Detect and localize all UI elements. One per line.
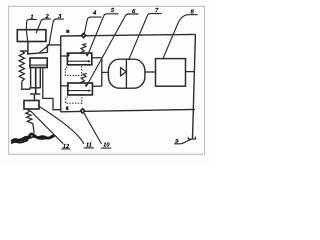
svg-text:5: 5 xyxy=(111,7,115,14)
pipe capsule to box8 xyxy=(145,71,156,73)
right connector vertical xyxy=(101,58,103,86)
piston line xyxy=(30,64,47,66)
port letter a xyxy=(66,30,69,33)
suspension spring K1 xyxy=(19,51,24,89)
piston rod xyxy=(35,68,37,95)
port letter c xyxy=(67,83,70,87)
pump/accumulator capsule U7 xyxy=(108,59,144,88)
valve V2 pilot line (dashed) xyxy=(66,95,82,103)
valve V2 body xyxy=(68,83,93,95)
svg-text:4: 4 xyxy=(92,10,97,17)
sprung mass box M1 xyxy=(17,30,46,42)
capsule divider xyxy=(125,59,127,88)
spring tie bar xyxy=(21,88,31,90)
left vertical bus xyxy=(60,36,62,112)
top wire xyxy=(61,34,196,36)
valve V2 left port xyxy=(61,85,68,87)
valve V2 right port xyxy=(92,85,101,87)
pipe box8 to right bus xyxy=(186,71,195,73)
label 4 xyxy=(84,10,101,35)
border frame xyxy=(9,6,205,154)
spring hanger bar xyxy=(20,50,28,52)
label 3 xyxy=(39,13,64,53)
label 11 xyxy=(38,106,94,149)
hydraulic cylinder upper chamber xyxy=(30,58,47,68)
reservoir box U8 xyxy=(156,59,186,87)
cylinder lower port pipe to return bus xyxy=(43,68,61,110)
label 10 xyxy=(84,113,111,149)
rod stem from mass to cylinder xyxy=(27,42,29,54)
cylinder lower walls xyxy=(31,68,41,88)
check valve triangle xyxy=(121,68,127,76)
valve V1 pilot line (dashed) xyxy=(65,65,81,76)
valve V1 body xyxy=(67,53,91,65)
terminal foot xyxy=(188,137,195,140)
valve V1 spring xyxy=(80,44,87,53)
valve V2 divider/arrow xyxy=(68,90,90,92)
label 2 xyxy=(36,13,51,33)
port letter d xyxy=(66,106,69,110)
label 1 xyxy=(26,14,37,42)
bottom bus xyxy=(61,109,196,111)
label 5 xyxy=(86,7,119,56)
valve V2 spring xyxy=(80,74,87,83)
right vertical bus xyxy=(193,34,196,138)
valve V1 left port xyxy=(61,55,67,57)
road surface squiggle xyxy=(12,134,55,142)
valve V1 divider/arrow xyxy=(68,60,90,62)
label 6 xyxy=(85,8,139,87)
node diamond bottom xyxy=(80,108,85,113)
port letter b xyxy=(67,53,70,57)
label 8 xyxy=(163,9,198,59)
node diamond top (a junction) xyxy=(81,33,86,38)
stub to pump xyxy=(102,71,109,73)
cylinder bottom cap xyxy=(30,87,41,89)
label 7 xyxy=(129,7,162,60)
tire spring K2 xyxy=(26,109,34,133)
rod plate xyxy=(30,93,40,95)
label 9 xyxy=(174,138,192,145)
cylinder top plate and pipe to valve bus xyxy=(27,45,61,54)
valve V1 right port xyxy=(92,57,102,59)
unsprung mass box M2 xyxy=(24,101,39,110)
rod lower stem xyxy=(33,94,35,101)
label 12 xyxy=(31,111,71,150)
